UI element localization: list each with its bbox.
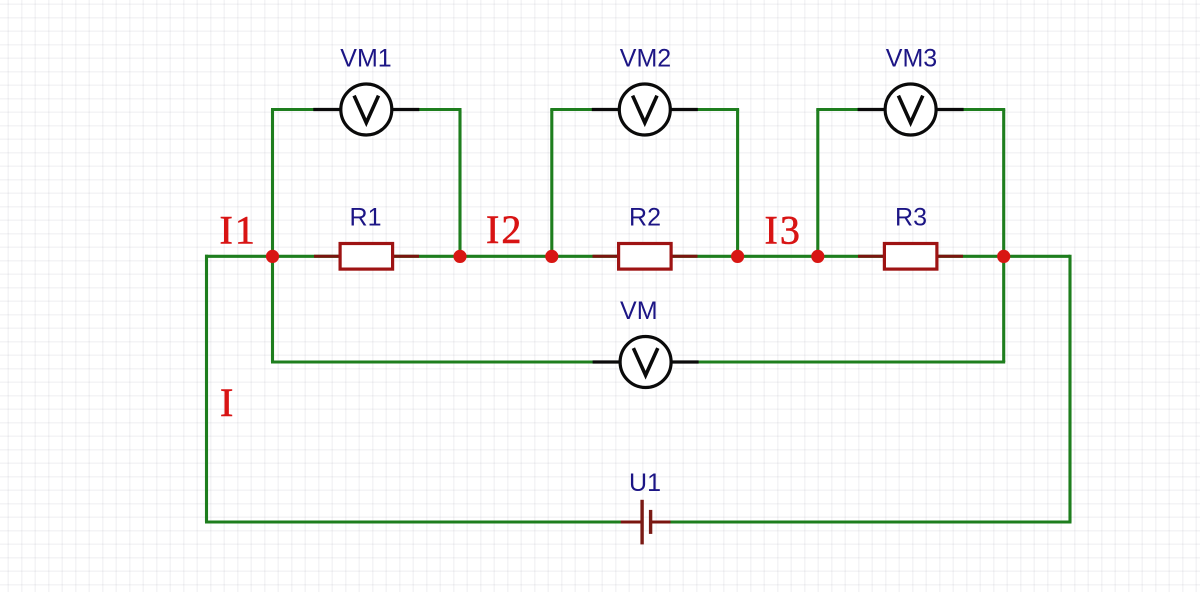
wire: VM2 loop left vertical xyxy=(550,110,553,257)
node: junction dot 4 (VM2 right) xyxy=(731,250,744,263)
wire: VM3 loop left vertical xyxy=(816,110,819,257)
wire: VM3 loop right vertical xyxy=(1002,110,1005,257)
svg-text:VM3: VM3 xyxy=(886,45,937,73)
svg-text:VM2: VM2 xyxy=(620,45,671,73)
wire: VM bottom loop left vertical xyxy=(271,256,274,362)
wire: VM1 loop top horizontal xyxy=(271,108,462,111)
node: junction dot 1 (I1 / VM1 left) xyxy=(266,250,279,263)
battery U1 xyxy=(621,500,671,545)
voltmeter VM2 xyxy=(592,84,698,135)
wire: VM3 loop top horizontal xyxy=(816,108,1005,111)
node: junction dot 5 (VM3 left) xyxy=(811,250,824,263)
svg-text:R1: R1 xyxy=(350,203,382,231)
node: junction dot 6 (VM3 right) xyxy=(997,250,1010,263)
svg-text:I3: I3 xyxy=(765,208,802,253)
node: junction dot 2 (VM1 right) xyxy=(453,250,466,263)
wire: VM2 loop right vertical xyxy=(736,110,739,257)
wire: right outer vertical xyxy=(1068,255,1071,522)
svg-text:U1: U1 xyxy=(629,469,661,497)
voltmeter VM1 xyxy=(313,84,419,135)
voltmeter VM3 xyxy=(858,84,964,135)
wire: VM bottom loop horizontal xyxy=(271,360,1005,363)
wire: bottom bus left of battery xyxy=(205,520,621,523)
node: junction dot 3 (VM2 left) xyxy=(545,250,558,263)
svg-text:I1: I1 xyxy=(220,208,257,253)
wire: VM2 loop top horizontal xyxy=(550,108,739,111)
svg-text:I2: I2 xyxy=(486,207,523,252)
resistor R2 xyxy=(593,244,698,270)
voltmeter VM (total) xyxy=(593,337,699,388)
svg-text:R2: R2 xyxy=(629,203,661,231)
wire: VM bottom loop right vertical xyxy=(1002,256,1005,362)
wire: main horizontal bus xyxy=(205,255,1070,258)
svg-text:R3: R3 xyxy=(895,203,927,231)
wire: VM1 loop right vertical xyxy=(458,110,461,257)
svg-text:VM: VM xyxy=(620,297,658,325)
svg-text:I: I xyxy=(220,380,235,425)
resistor R3 xyxy=(858,244,963,270)
svg-text:VM1: VM1 xyxy=(340,45,391,73)
wire: left outer vertical xyxy=(205,255,208,522)
wire: bottom bus right of battery xyxy=(671,520,1072,523)
wire: VM1 loop left vertical xyxy=(271,110,274,257)
resistor R1 xyxy=(314,244,419,270)
